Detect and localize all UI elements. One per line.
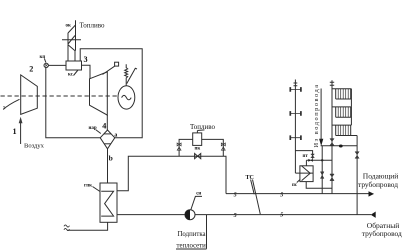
svg-text:Из водопровода: Из водопровода: [313, 83, 320, 147]
svg-text:Топливо: Топливо: [80, 22, 105, 30]
svg-text:кп: кп: [40, 55, 46, 60]
svg-text:сн: сн: [196, 192, 201, 197]
svg-text:пс: пс: [292, 183, 298, 188]
svg-text:b: b: [109, 154, 113, 163]
svg-text:теплосети: теплосети: [177, 243, 207, 250]
svg-text:трубопровод: трубопровод: [362, 229, 402, 238]
svg-text:5: 5: [234, 192, 237, 198]
svg-text:пк: пк: [195, 146, 201, 151]
svg-text:нар: нар: [89, 126, 97, 131]
svg-text:Подпитка: Подпитка: [178, 231, 206, 238]
svg-text:5: 5: [234, 213, 237, 219]
svg-text:гпк: гпк: [84, 184, 92, 189]
svg-text:ТС: ТС: [246, 175, 254, 181]
svg-text:Воздух: Воздух: [24, 143, 45, 150]
svg-text:ок: ок: [66, 24, 72, 29]
svg-text:а: а: [114, 132, 117, 138]
svg-text:1: 1: [13, 127, 17, 136]
svg-text:4: 4: [102, 122, 106, 131]
svg-text:Топливо: Топливо: [190, 123, 215, 131]
svg-text:2: 2: [29, 64, 33, 73]
svg-text:5: 5: [280, 213, 283, 219]
svg-text:кс: кс: [68, 73, 74, 78]
svg-text:5: 5: [280, 193, 283, 199]
svg-text:3: 3: [84, 55, 88, 64]
svg-text:трубопровод: трубопровод: [358, 180, 398, 189]
svg-text:пт: пт: [303, 154, 309, 159]
